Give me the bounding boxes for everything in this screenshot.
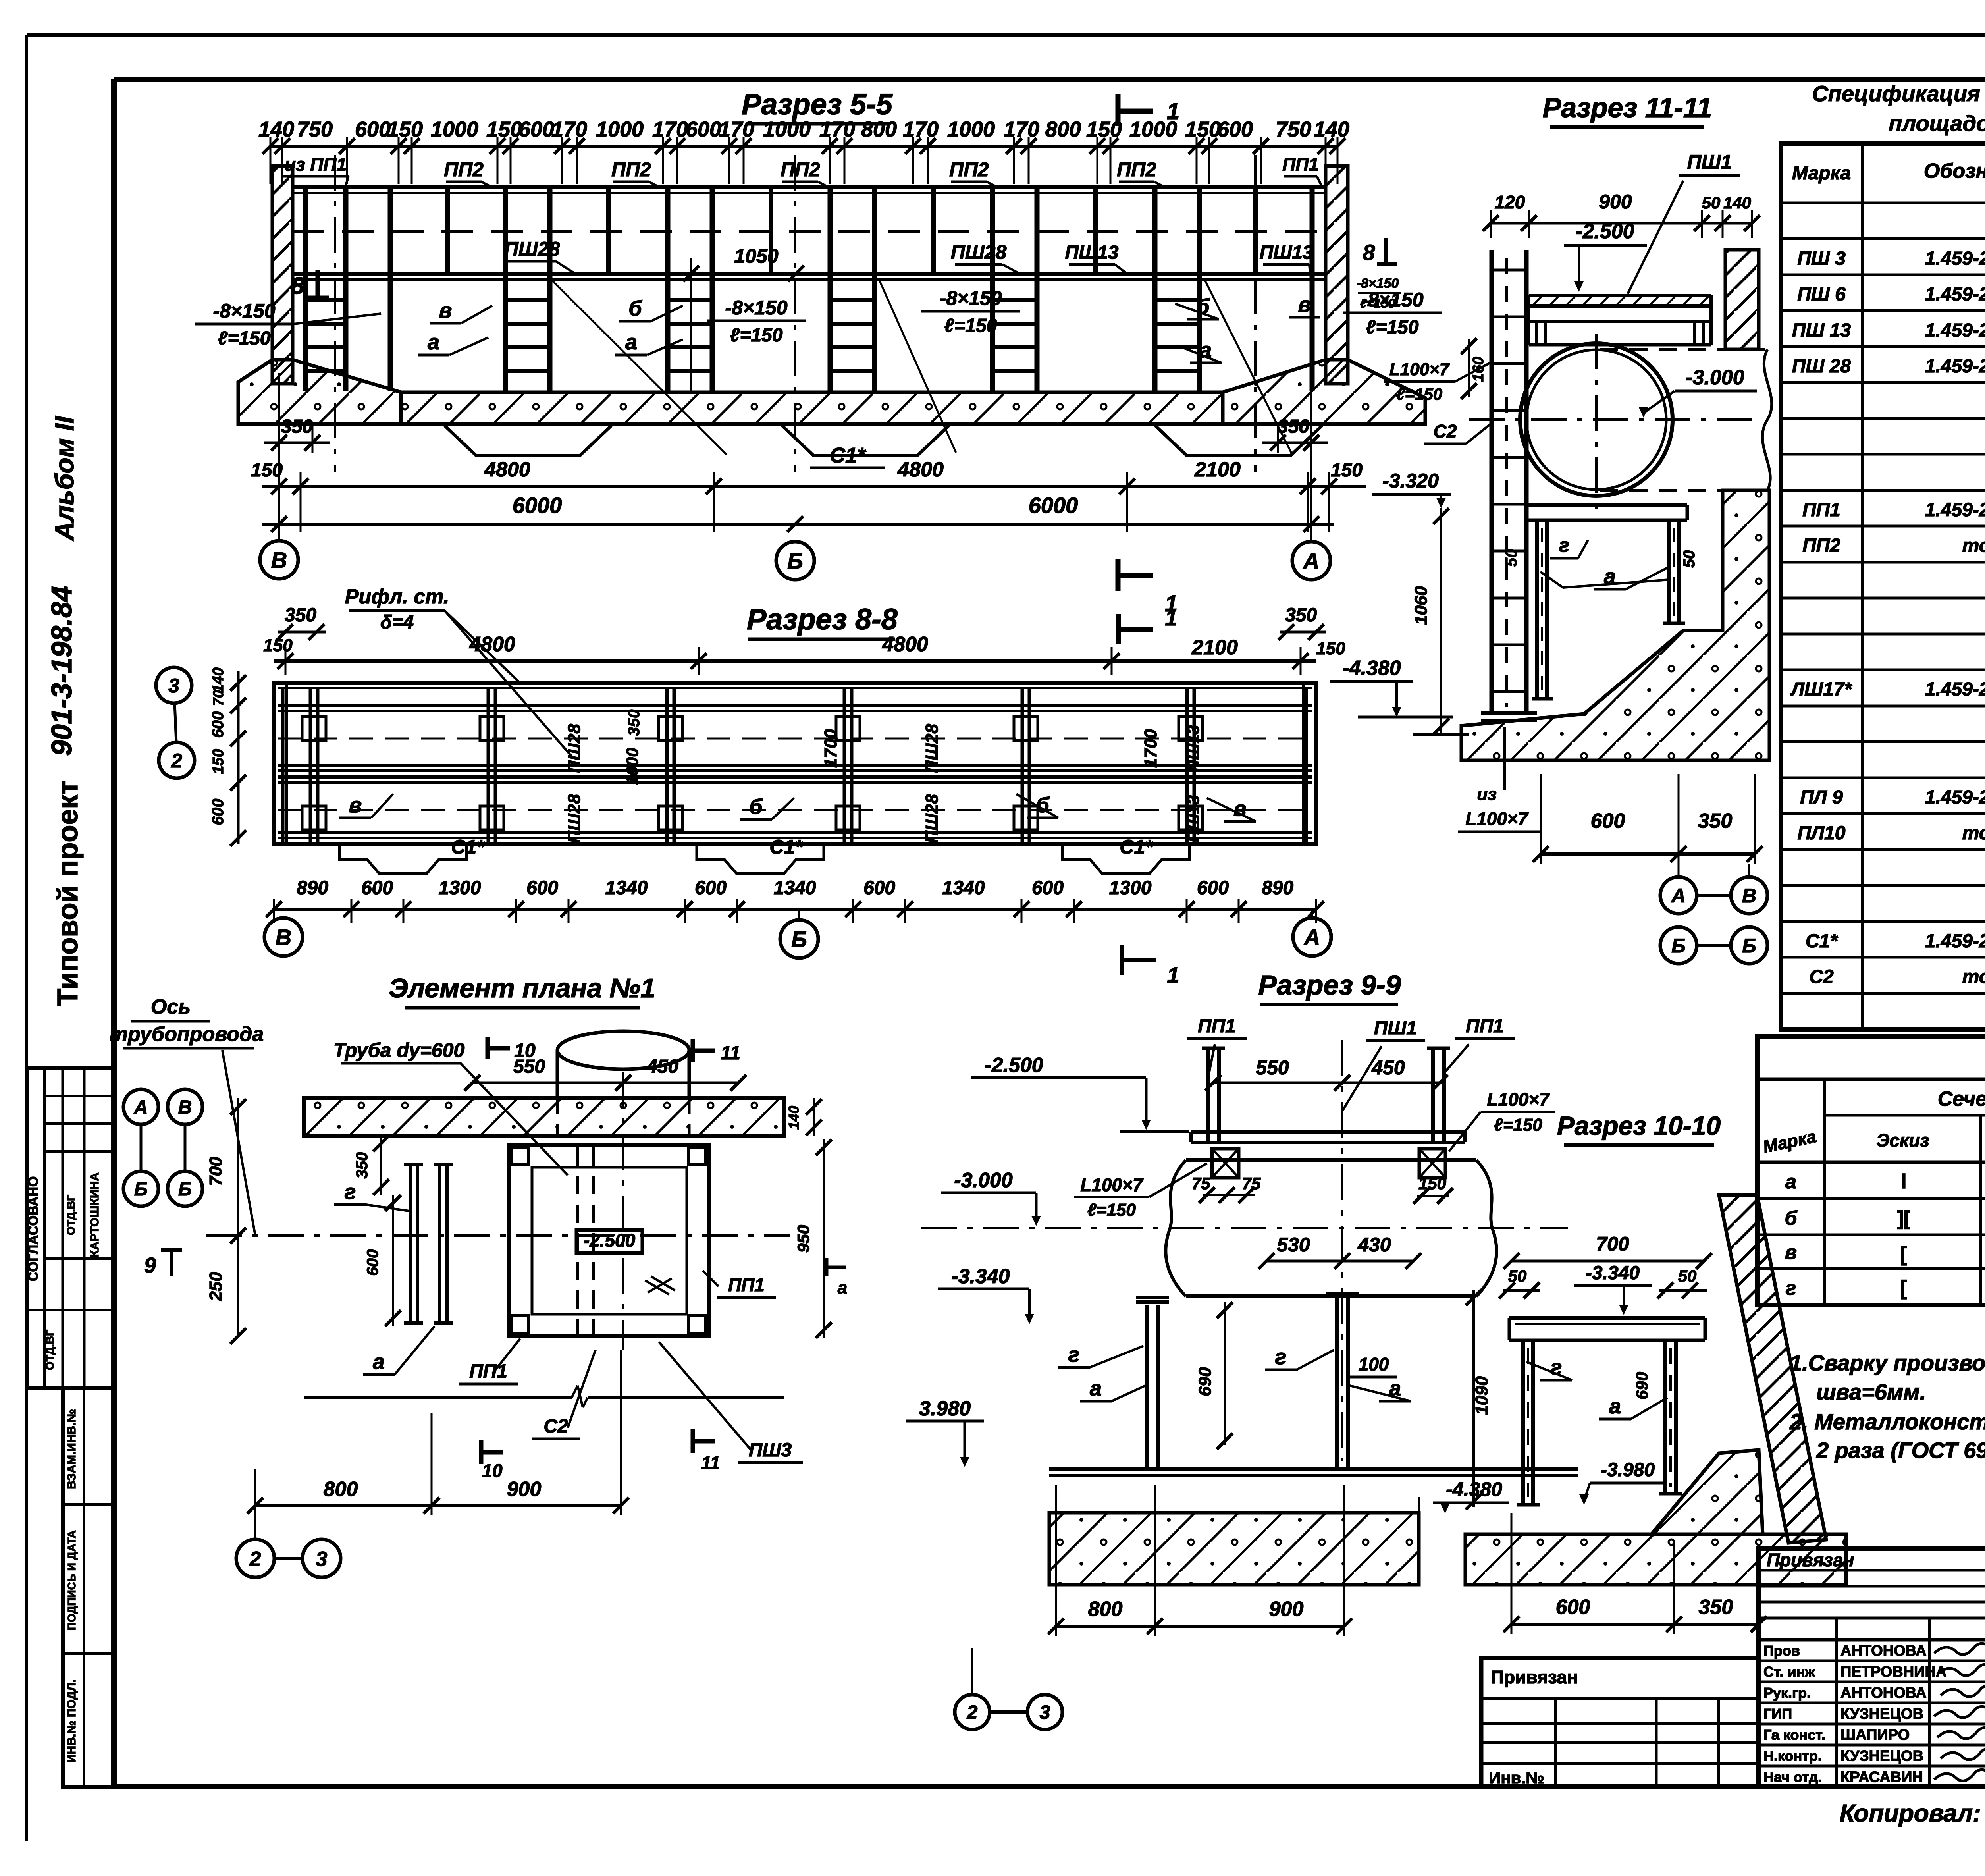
svg-text:600: 600 <box>1556 1596 1590 1619</box>
svg-text:ПШ1: ПШ1 <box>1374 1018 1417 1039</box>
svg-text:В: В <box>276 925 291 950</box>
svg-text:600: 600 <box>526 877 558 898</box>
svg-text:Рифл. ст.: Рифл. ст. <box>345 585 449 608</box>
svg-text:ℓ=150: ℓ=150 <box>1366 317 1419 338</box>
11-11 bubbles <box>1660 877 1697 914</box>
svg-text:4800: 4800 <box>897 458 944 481</box>
svg-text:600: 600 <box>355 118 391 141</box>
svg-text:ВЗАМ.ИНВ.№: ВЗАМ.ИНВ.№ <box>65 1409 78 1489</box>
svg-text:120: 120 <box>1495 192 1525 212</box>
svg-text:-8×150: -8×150 <box>725 297 787 319</box>
svg-text:690: 690 <box>1195 1367 1215 1396</box>
svg-text:АНТОНОВА: АНТОНОВА <box>1840 1685 1927 1701</box>
plan hatch mark <box>645 1280 669 1294</box>
svg-text:ℓ=150: ℓ=150 <box>218 328 271 349</box>
plan corner posts <box>511 1147 529 1165</box>
svg-text:ПЛ 9: ПЛ 9 <box>1800 787 1843 808</box>
plan vertical dims left <box>237 1098 239 1336</box>
svg-text:600: 600 <box>1217 118 1253 141</box>
svg-text:450: 450 <box>1371 1057 1405 1079</box>
svg-text:1000: 1000 <box>431 118 478 141</box>
plan wall strip <box>304 1098 784 1136</box>
svg-text:-3.340: -3.340 <box>951 1265 1010 1288</box>
svg-text:1.459-2, Вып.1: 1.459-2, Вып.1 <box>1925 284 1985 305</box>
svg-text:б: б <box>749 795 763 819</box>
svg-text:Б: Б <box>178 1179 192 1200</box>
svg-text:ПП2: ПП2 <box>949 158 989 181</box>
title block left extra box <box>1481 1658 1759 1787</box>
svg-text:900: 900 <box>1269 1598 1304 1621</box>
svg-text:350: 350 <box>285 605 316 626</box>
svg-text:Н.контр.: Н.контр. <box>1763 1748 1822 1764</box>
svg-text:в: в <box>439 299 452 322</box>
5-5 dim row 150/4800/4800/2100/150 <box>262 485 1366 488</box>
svg-text:-2.500: -2.500 <box>584 1230 636 1251</box>
svg-text:ℓ=150: ℓ=150 <box>1396 385 1442 403</box>
svg-text:900: 900 <box>507 1478 542 1501</box>
svg-text:10: 10 <box>482 1460 503 1481</box>
svg-text:150: 150 <box>1316 639 1345 658</box>
10-10 50 dims <box>1503 1289 1540 1292</box>
svg-text:600: 600 <box>1197 877 1229 898</box>
svg-text:-2.500: -2.500 <box>1576 220 1634 243</box>
sheet outer border <box>27 33 1985 37</box>
svg-text:Б: Б <box>791 927 807 952</box>
svg-text:то же: то же <box>1962 535 1985 556</box>
svg-text:Разрез 9-9: Разрез 9-9 <box>1258 970 1401 1001</box>
svg-text:140: 140 <box>786 1106 802 1130</box>
svg-text:ИНВ.№ ПОДЛ.: ИНВ.№ ПОДЛ. <box>65 1679 78 1763</box>
5-5 left foundation <box>238 360 401 424</box>
11-11 platform <box>1529 304 1711 308</box>
svg-text:150: 150 <box>1418 1174 1446 1193</box>
svg-text:ℓ=150: ℓ=150 <box>1360 296 1395 310</box>
11-11 concrete floor/berm/wall <box>1461 490 1769 760</box>
8-8 left dim stack <box>237 671 240 844</box>
svg-text:1050: 1050 <box>734 245 778 267</box>
svg-text:L100×7: L100×7 <box>1487 1089 1550 1110</box>
svg-text:1700: 1700 <box>1141 729 1160 768</box>
9-9 floor slab hatched <box>1049 1513 1419 1585</box>
svg-text:140: 140 <box>258 118 294 141</box>
svg-text:а: а <box>625 330 637 354</box>
svg-text:г: г <box>345 1180 356 1204</box>
svg-text:ГИП: ГИП <box>1763 1706 1792 1722</box>
svg-text:1000: 1000 <box>763 118 811 141</box>
svg-text:8: 8 <box>1363 240 1375 265</box>
svg-text:Рук.гр.: Рук.гр. <box>1763 1685 1811 1701</box>
10-10 column bases <box>1517 1503 1540 1507</box>
svg-text:Элемент плана №1: Элемент плана №1 <box>389 973 655 1003</box>
svg-text:150: 150 <box>1185 118 1221 141</box>
svg-text:50: 50 <box>1681 550 1698 568</box>
svg-text:600: 600 <box>209 711 227 738</box>
svg-text:ПП2: ПП2 <box>1802 535 1840 556</box>
svg-text:160: 160 <box>1470 357 1487 382</box>
svg-text:][: ][ <box>1897 1207 1910 1229</box>
5-5 grid bubbles <box>260 541 298 579</box>
svg-text:Инв.№: Инв.№ <box>1489 1768 1544 1787</box>
svg-text:140: 140 <box>1723 193 1751 212</box>
svg-text:700: 700 <box>206 1157 225 1186</box>
11-11 opening dashed lines <box>1600 348 1767 351</box>
svg-text:150: 150 <box>210 749 227 774</box>
8-8 plan outline <box>274 683 1316 844</box>
svg-text:600: 600 <box>863 877 895 898</box>
plan platform square <box>509 1145 709 1336</box>
5-5 S1 bracket symbols under slab <box>445 426 611 456</box>
svg-text:из ПП1: из ПП1 <box>285 154 347 175</box>
svg-text:то же: то же <box>1962 823 1985 844</box>
svg-text:Сечение: Сечение <box>1938 1087 1985 1111</box>
svg-text:800: 800 <box>1088 1598 1123 1621</box>
svg-text:ЛШ17*: ЛШ17* <box>1790 679 1852 700</box>
svg-text:1340: 1340 <box>774 877 816 898</box>
svg-text:-3.000: -3.000 <box>954 1169 1013 1192</box>
svg-text:Разрез 5-5: Разрез 5-5 <box>742 88 893 121</box>
svg-text:11: 11 <box>701 1452 720 1473</box>
9-9 dim 550/450 <box>1213 1082 1440 1084</box>
svg-text:-3.000: -3.000 <box>1686 366 1744 389</box>
plan section mark a right <box>825 1258 829 1276</box>
svg-text:Разрез 8-8: Разрез 8-8 <box>747 603 898 636</box>
svg-text:г: г <box>1275 1345 1287 1369</box>
svg-text:г: г <box>1068 1343 1080 1367</box>
8-8 grid bubbles bottom <box>264 918 303 956</box>
svg-text:1700: 1700 <box>821 729 840 768</box>
5-5 support posts <box>303 187 308 391</box>
svg-text:70: 70 <box>210 690 226 706</box>
svg-text:ПШ28: ПШ28 <box>951 241 1007 263</box>
section mark 11 bottom <box>691 1429 695 1453</box>
svg-text:ПШ28: ПШ28 <box>565 794 584 843</box>
svg-text:-8×150: -8×150 <box>213 300 275 322</box>
svg-text:1300: 1300 <box>1109 877 1152 898</box>
10-10 berm <box>1652 1450 1763 1534</box>
svg-text:-8×150: -8×150 <box>1357 276 1399 291</box>
svg-text:А: А <box>1303 548 1319 573</box>
5-5 right foundation <box>1223 360 1425 424</box>
5-5 railing-only posts <box>445 187 450 274</box>
svg-text:L100×7: L100×7 <box>1389 360 1450 379</box>
svg-text:-4.380: -4.380 <box>1342 657 1401 680</box>
svg-text:А: А <box>134 1097 148 1118</box>
svg-text:1340: 1340 <box>605 877 648 898</box>
svg-text:то же: то же <box>1962 966 1985 987</box>
plan grid bubbles <box>123 1089 158 1124</box>
svg-text:ПШ 28: ПШ 28 <box>1792 356 1851 377</box>
sidebar stamp box lower <box>63 1388 114 1787</box>
svg-text:из: из <box>1477 785 1496 804</box>
svg-text:В: В <box>178 1097 192 1118</box>
svg-text:[: [ <box>1900 1276 1907 1300</box>
svg-text:170: 170 <box>652 118 688 141</box>
svg-text:КУЗНЕЦОВ: КУЗНЕЦОВ <box>1840 1748 1923 1764</box>
svg-text:Разрез 10-10: Разрез 10-10 <box>1557 1111 1721 1140</box>
vedomost table <box>1757 1036 1985 1305</box>
svg-text:В: В <box>1742 885 1756 907</box>
svg-text:Б: Б <box>1742 935 1756 957</box>
svg-text:1000: 1000 <box>947 118 995 141</box>
svg-text:а: а <box>838 1278 847 1298</box>
5-5 top handrail <box>293 185 1326 189</box>
8-8 grid bubbles 3 and 2 <box>156 667 192 703</box>
svg-text:1.459-2, Вып.1: 1.459-2, Вып.1 <box>1925 679 1985 700</box>
main drawing frame <box>114 77 1985 82</box>
svg-text:600: 600 <box>518 118 554 141</box>
svg-text:площадок и опор: площадок и опор <box>1889 111 1985 136</box>
svg-text:ПШ28: ПШ28 <box>922 794 942 843</box>
svg-text:2 раза (ГОСТ 695-77).: 2 раза (ГОСТ 695-77). <box>1816 1438 1985 1463</box>
svg-text:в: в <box>1298 293 1311 316</box>
sidebar stamp box SOGLASOVANO <box>27 1068 114 1388</box>
5-5 dim row 6000/6000 <box>262 523 1334 526</box>
svg-text:Б: Б <box>787 548 803 573</box>
9-9 bottom dims <box>1056 1625 1344 1628</box>
svg-text:ПП1: ПП1 <box>1198 1016 1236 1037</box>
section mark 1 bottom <box>1116 559 1121 591</box>
11-11 upper wall block <box>1725 250 1759 349</box>
svg-text:50: 50 <box>1702 193 1721 212</box>
svg-text:С2: С2 <box>543 1416 568 1437</box>
svg-text:450: 450 <box>646 1056 678 1077</box>
svg-text:Марка: Марка <box>1792 163 1851 184</box>
svg-text:а: а <box>1090 1377 1102 1400</box>
section mark 10 bottom <box>479 1440 484 1464</box>
5-5 ladder rungs below deck <box>306 298 346 302</box>
svg-text:шва=6мм.: шва=6мм. <box>1816 1379 1926 1404</box>
svg-text:ПШ13: ПШ13 <box>1184 795 1203 842</box>
svg-text:СОГЛАСОВАНО: СОГЛАСОВАНО <box>26 1176 41 1282</box>
svg-text:2. Металлоконструкции окрасит: 2. Металлоконструкции окрасить масляной … <box>1789 1409 1985 1434</box>
10-10 top beam <box>1509 1316 1705 1320</box>
plan axis lines <box>206 1234 790 1237</box>
svg-text:Привязан: Привязан <box>1491 1667 1578 1687</box>
svg-text:КАРТОШКИНА: КАРТОШКИНА <box>88 1172 101 1257</box>
9-9 floor line <box>1049 1467 1578 1471</box>
8-8 section mark 1 bottom <box>1120 945 1124 975</box>
svg-text:3: 3 <box>1040 1702 1050 1723</box>
svg-text:1: 1 <box>1165 605 1177 630</box>
svg-text:С2: С2 <box>1434 421 1457 442</box>
8-8 cross posts <box>281 688 285 842</box>
10-10 columns <box>1521 1340 1525 1505</box>
svg-text:Пров: Пров <box>1763 1643 1800 1659</box>
10-10 right wall <box>1719 1195 1826 1543</box>
svg-text:4800: 4800 <box>882 633 928 656</box>
svg-text:170: 170 <box>903 118 939 141</box>
5-5 mid rail <box>293 230 1326 233</box>
plan pipe from top <box>557 1031 689 1069</box>
svg-text:600: 600 <box>364 1249 382 1276</box>
svg-text:Копировал: Корецкая: Копировал: Корецкая <box>1840 1800 1985 1827</box>
svg-text:ПШ13: ПШ13 <box>1184 725 1203 772</box>
svg-text:-3.340: -3.340 <box>1586 1263 1640 1284</box>
svg-text:ПШ1: ПШ1 <box>1687 151 1732 173</box>
11-11 support stand <box>1526 503 1687 507</box>
svg-text:КРАСАВИН: КРАСАВИН <box>1840 1769 1923 1785</box>
svg-text:ОТД.ВГ: ОТД.ВГ <box>65 1195 77 1235</box>
svg-text:1.459-2, Вып.1: 1.459-2, Вып.1 <box>1925 356 1985 377</box>
svg-text:Б: Б <box>1671 935 1685 957</box>
svg-text:550: 550 <box>513 1056 545 1077</box>
svg-text:150: 150 <box>251 460 283 481</box>
9-9 left post <box>1206 1048 1210 1142</box>
svg-text:50: 50 <box>1503 549 1520 567</box>
svg-text:а: а <box>1785 1170 1796 1193</box>
svg-text:75: 75 <box>1242 1174 1261 1193</box>
svg-text:ПП2: ПП2 <box>781 158 820 181</box>
svg-text:150: 150 <box>1331 460 1363 481</box>
svg-text:АНТОНОВА: АНТОНОВА <box>1840 1643 1927 1659</box>
11-11 ladder LSh17 <box>1490 250 1494 713</box>
plan dim 550/450 <box>472 1082 738 1084</box>
5-5 right wall (hatched) <box>1326 166 1348 384</box>
svg-text:150: 150 <box>387 118 423 141</box>
svg-text:ПП2: ПП2 <box>1117 158 1156 181</box>
svg-text:140: 140 <box>210 667 227 692</box>
svg-text:ПЕТРОВНИНА: ПЕТРОВНИНА <box>1840 1664 1946 1680</box>
svg-text:2: 2 <box>967 1702 978 1723</box>
svg-text:б: б <box>628 297 642 320</box>
9-9 pipe axis <box>921 1227 1568 1229</box>
svg-text:Б: Б <box>134 1179 148 1200</box>
svg-text:ПП1: ПП1 <box>1802 499 1840 521</box>
svg-text:-2.500: -2.500 <box>985 1054 1043 1077</box>
svg-text:8: 8 <box>291 272 304 299</box>
svg-text:ℓ=150: ℓ=150 <box>944 315 997 336</box>
svg-text:ПП2: ПП2 <box>444 158 484 181</box>
svg-text:Ст. инж: Ст. инж <box>1763 1664 1815 1680</box>
svg-text:350: 350 <box>625 710 643 736</box>
svg-text:350: 350 <box>1699 1596 1733 1619</box>
8-8 bottom dim chain <box>274 908 1316 911</box>
svg-text:ПШ 3: ПШ 3 <box>1797 248 1846 269</box>
svg-text:ПП1: ПП1 <box>728 1274 765 1295</box>
5-5 left wall (hatched) <box>272 166 293 384</box>
section mark 11 top <box>691 1039 695 1062</box>
svg-text:-3.320: -3.320 <box>1382 470 1439 492</box>
svg-text:1090: 1090 <box>1472 1376 1492 1415</box>
svg-text:350: 350 <box>1698 810 1733 833</box>
svg-text:800: 800 <box>324 1478 358 1501</box>
svg-text:ПП1: ПП1 <box>1466 1016 1504 1037</box>
svg-text:2100: 2100 <box>1194 458 1241 481</box>
svg-text:ПП2: ПП2 <box>611 158 651 181</box>
svg-text:С2: С2 <box>1809 966 1834 987</box>
svg-text:Привязан: Привязан <box>1767 1550 1854 1570</box>
svg-text:750: 750 <box>297 118 333 141</box>
svg-text:А: А <box>1671 885 1686 907</box>
svg-text:С1*: С1* <box>830 443 867 467</box>
svg-text:1.Сварку производить электро: 1.Сварку производить электродами Э-42 ГО… <box>1790 1350 1985 1375</box>
11-11 bottom dims <box>1541 852 1755 856</box>
svg-text:ПШ 6: ПШ 6 <box>1797 284 1846 305</box>
8-8 bolt squares <box>302 717 326 740</box>
5-5 deck line <box>293 272 1326 276</box>
svg-text:3: 3 <box>316 1548 328 1571</box>
svg-text:1.459-2, Вып.1: 1.459-2, Вып.1 <box>1925 931 1985 952</box>
svg-text:ПШ28: ПШ28 <box>504 238 560 260</box>
svg-text:9: 9 <box>144 1253 156 1277</box>
svg-text:600: 600 <box>1032 877 1064 898</box>
svg-text:3: 3 <box>168 675 179 697</box>
svg-text:I: I <box>1900 1169 1906 1193</box>
svg-text:350: 350 <box>1285 605 1317 626</box>
svg-text:4800: 4800 <box>484 458 530 481</box>
svg-text:1: 1 <box>1167 962 1179 987</box>
8-8 S1 brackets bottom <box>339 846 466 873</box>
11-11 160 dim <box>1468 339 1470 397</box>
svg-text:В: В <box>271 548 287 573</box>
grid axis B <box>794 155 796 472</box>
5-5 leader diagonals <box>552 280 727 455</box>
svg-text:ℓ=150: ℓ=150 <box>730 325 783 346</box>
svg-text:1060: 1060 <box>1411 586 1431 625</box>
plan far edge line with break <box>304 1396 572 1399</box>
svg-text:600: 600 <box>209 799 227 825</box>
svg-text:690: 690 <box>1632 1372 1651 1400</box>
svg-text:δ=4: δ=4 <box>380 612 414 633</box>
svg-text:С1*: С1* <box>1806 931 1838 952</box>
svg-text:2: 2 <box>249 1548 261 1571</box>
svg-text:ПШ13: ПШ13 <box>1260 242 1313 263</box>
svg-text:1000: 1000 <box>623 748 642 785</box>
svg-text:Альбом II: Альбом II <box>50 416 79 542</box>
svg-text:600: 600 <box>1591 810 1625 833</box>
9-9 column bases <box>1133 1467 1173 1471</box>
specification table <box>1781 144 1985 1029</box>
svg-text:Ось: Ось <box>151 995 191 1018</box>
9-9 pipe body <box>1186 1158 1476 1162</box>
svg-text:Спецификация к схеме располо: Спецификация к схеме расположения металл… <box>1812 81 1985 106</box>
plan bottom dims <box>255 1504 621 1507</box>
svg-text:КУЗНЕЦОВ: КУЗНЕЦОВ <box>1840 1706 1923 1722</box>
svg-text:530: 530 <box>1277 1234 1310 1256</box>
svg-text:г: г <box>1786 1277 1796 1299</box>
svg-text:1.459-2, Вып.2: 1.459-2, Вып.2 <box>1925 499 1985 521</box>
svg-text:50: 50 <box>1678 1267 1697 1285</box>
5-5 top dimension chain <box>270 145 1337 148</box>
9-9 deck <box>1191 1130 1465 1134</box>
svg-text:ШАПИРО: ШАПИРО <box>1840 1727 1910 1743</box>
plan level box -2.500 <box>576 1230 642 1253</box>
grid axis A <box>1254 155 1257 472</box>
svg-text:-3.980: -3.980 <box>1601 1460 1655 1481</box>
svg-text:901-3-198.84: 901-3-198.84 <box>46 586 78 756</box>
svg-text:а: а <box>1609 1394 1621 1418</box>
svg-text:С1*: С1* <box>1120 836 1154 858</box>
svg-text:900: 900 <box>1599 191 1632 213</box>
svg-text:Труба dу=600: Труба dу=600 <box>333 1039 465 1061</box>
svg-text:ПП1: ПП1 <box>1282 154 1319 175</box>
svg-text:150: 150 <box>263 636 293 655</box>
svg-text:600: 600 <box>686 118 721 141</box>
svg-text:Разрез 11-11: Разрез 11-11 <box>1543 92 1712 123</box>
9-9 right post <box>1431 1048 1435 1142</box>
svg-text:170: 170 <box>819 118 855 141</box>
svg-text:ПП1: ПП1 <box>469 1361 507 1382</box>
svg-text:L100×7: L100×7 <box>1080 1174 1144 1195</box>
svg-text:890: 890 <box>1262 877 1293 898</box>
svg-text:г: г <box>1559 534 1570 556</box>
svg-text:ПШ3: ПШ3 <box>749 1440 792 1461</box>
svg-text:11: 11 <box>721 1043 740 1064</box>
svg-text:1000: 1000 <box>1129 118 1177 141</box>
10-10 dim 700 <box>1511 1260 1704 1263</box>
svg-text:950: 950 <box>794 1225 813 1253</box>
svg-text:2: 2 <box>171 750 182 772</box>
